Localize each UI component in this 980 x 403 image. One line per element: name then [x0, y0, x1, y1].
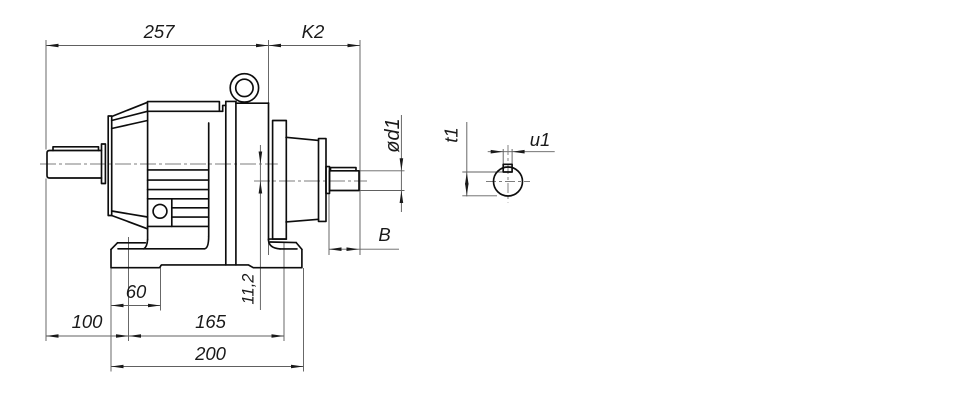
adapter right edge: [235, 101, 237, 265]
bell flare top outer: [112, 102, 148, 116]
svg-text:t1: t1: [441, 127, 462, 142]
svg-text:60: 60: [126, 281, 147, 302]
detail circle centerlines: [486, 145, 530, 203]
bell flare top inner: [112, 121, 148, 129]
cone bottom: [286, 219, 319, 222]
arrow 11,2 top: [259, 152, 263, 165]
dimension line 60: [111, 305, 161, 307]
extension lines d1: [360, 170, 405, 172]
dimension line d1: [400, 115, 402, 212]
arrow 100 right: [116, 334, 129, 338]
motor bracket front face: [147, 226, 149, 239]
extension line shaft end (x=360): [359, 40, 361, 255]
arrow 257 left: [46, 44, 59, 48]
adapter left edge: [225, 101, 227, 265]
bell flare top mid: [112, 111, 148, 120]
arrow 100 left: [46, 334, 59, 338]
centerline output axis: [254, 180, 367, 182]
stator fin 3: [148, 189, 209, 191]
input shaft collar: [102, 144, 106, 184]
plug box fin 2: [172, 216, 209, 218]
svg-text:165: 165: [195, 311, 227, 332]
arrow d1 top: [400, 158, 404, 171]
svg-text:11,2: 11,2: [240, 274, 258, 305]
gearbox right edge: [268, 103, 270, 240]
thin dimension and extension lines: [46, 40, 555, 372]
section keyway: [503, 164, 512, 172]
foot pad near top and under motor floor: [118, 248, 205, 250]
extension line B left (x=329): [328, 193, 330, 255]
arrow 11,2 bottom: [259, 181, 263, 194]
arrow 165 right: [272, 334, 285, 338]
centerline input axis: [40, 163, 278, 165]
flange bottom lip: [269, 238, 287, 240]
extension line x=284: [283, 242, 285, 341]
arrow 200 right: [291, 365, 304, 369]
extension line x=128.5: [128, 237, 130, 341]
band bottom extension: [219, 110, 222, 112]
input shaft key: [53, 147, 99, 151]
cone top: [286, 137, 319, 140]
svg-text:u1: u1: [530, 129, 551, 150]
dimension line 257/K2: [46, 45, 360, 47]
extension line left (x=46): [45, 40, 47, 150]
dimension line B: [329, 248, 399, 250]
stator bottom: [148, 225, 209, 227]
band end step: [223, 105, 226, 111]
dimension line 200: [111, 366, 304, 368]
input shaft: [47, 151, 102, 179]
base outline: [111, 249, 302, 267]
eye bolt inner ring: [236, 79, 253, 96]
svg-text:B: B: [378, 224, 390, 245]
extension line keyway bottom (y=172): [462, 171, 513, 173]
stator top band: [148, 102, 220, 112]
output flange: [273, 121, 287, 240]
plug box top: [148, 198, 209, 200]
arrow u1 left: [491, 150, 504, 154]
eye bolt outer ring: [230, 74, 258, 102]
arrow B left: [329, 247, 342, 251]
drain plug circle: [153, 204, 167, 218]
plug box fin 1: [172, 207, 209, 209]
stator fin 2: [148, 179, 209, 181]
arrow K2 right: [348, 44, 361, 48]
gearbox top: [236, 102, 269, 104]
gearbox pad chamfer: [296, 243, 302, 250]
arrow K2 left: [269, 44, 282, 48]
foot left chamfer: [111, 243, 118, 250]
arrow 257 right: [256, 44, 269, 48]
svg-text:ød1: ød1: [382, 118, 404, 152]
arrow u1 right: [512, 150, 525, 154]
arrow B right: [347, 247, 360, 251]
arrow t1 top: [465, 172, 469, 185]
extension lines keyway sides up: [502, 149, 504, 165]
output shaft shoulder: [326, 167, 330, 194]
gearbox pad slope: [270, 241, 296, 244]
bearing cap: [319, 139, 327, 222]
extension line shared 257/K2 (x=267): [268, 40, 270, 255]
arrow 200 left: [111, 365, 124, 369]
stator right edge: [208, 123, 210, 237]
arrow d1 bottom: [400, 191, 404, 204]
output shaft key: [331, 168, 357, 171]
dimension line 100/165: [46, 335, 284, 337]
extension line base right (x=303.5): [303, 268, 305, 372]
output shaft: [330, 171, 360, 191]
arrowheads: [46, 44, 525, 369]
foot left pad far top: [118, 242, 146, 244]
bell flare bottom outer: [112, 216, 148, 229]
svg-text:K2: K2: [302, 21, 325, 42]
svg-text:200: 200: [194, 343, 227, 364]
dimension line t1: [466, 122, 468, 196]
bell flare bottom inner: [112, 211, 148, 217]
extension line x=160.5: [160, 265, 162, 311]
gearbox bracket near top: [280, 248, 297, 250]
dimension line 11,2 vertical: [259, 145, 261, 310]
arrow 60 left: [111, 304, 124, 308]
adapter top: [226, 100, 236, 102]
plug box divider: [171, 199, 173, 227]
motor bracket fillet: [144, 240, 148, 249]
bell front face: [108, 116, 112, 216]
extension line circle bottom (y=195.8): [462, 195, 497, 197]
dimension texts: [72, 21, 551, 364]
keyed shaft section circle: [494, 167, 523, 196]
arrow 60 right: [148, 304, 161, 308]
stator left edge: [147, 111, 149, 226]
stator fin 1: [148, 169, 209, 171]
dimension line u1: [488, 151, 555, 153]
extension line base left (x=111): [110, 268, 112, 372]
gearbox bracket fillet: [269, 240, 281, 249]
svg-text:257: 257: [143, 21, 176, 42]
svg-text:100: 100: [72, 311, 104, 332]
arrow t1 bottom: [465, 183, 469, 196]
arrow 165 left: [129, 334, 142, 338]
gap fillet right: [205, 236, 209, 249]
